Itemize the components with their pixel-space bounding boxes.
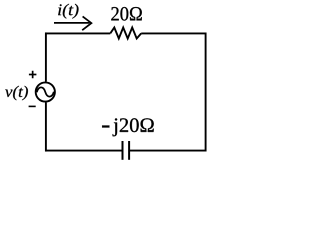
ac voltage source v(t) sine wave [37, 87, 54, 96]
wire bottom-left segment [46, 150, 123, 152]
ac voltage source v(t) circle [36, 82, 55, 101]
wire bottom-right segment [129, 150, 205, 152]
value label -j20 ohm: minus sign [102, 126, 109, 128]
wire top-right segment [141, 32, 205, 34]
wire top-left segment [46, 32, 110, 34]
source polarity minus sign [29, 105, 36, 107]
capacitor C -j20ohm left plate [122, 141, 124, 160]
resistor 20 ohm zigzag [110, 28, 141, 39]
label i(t) [58, 4, 78, 19]
current arrow i(t) [54, 16, 91, 30]
source polarity plus sign [29, 71, 37, 79]
value label -j20 ohm: j20 ohm text [113, 118, 154, 136]
label v(t) [5, 86, 28, 101]
wire left lower segment [45, 103, 47, 152]
wire left upper segment [45, 32, 47, 81]
wire right [205, 32, 207, 151]
value label 20 ohm [111, 7, 142, 21]
capacitor C -j20ohm right plate [128, 141, 130, 160]
